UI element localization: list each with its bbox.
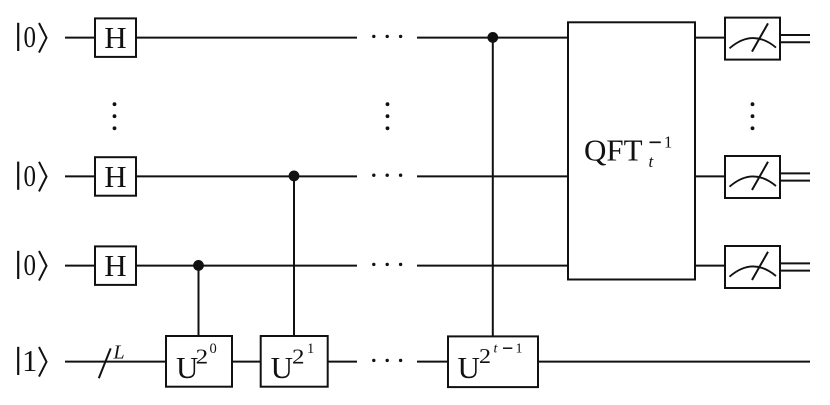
svg-text:U: U [271, 350, 293, 385]
control dot row3 [193, 260, 204, 271]
meter measurement row2 [725, 156, 780, 198]
svg-text:0: 0 [24, 248, 37, 282]
wire row4 left segment [65, 361, 166, 363]
svg-text:0: 0 [24, 20, 37, 54]
svg-text:H: H [104, 248, 126, 283]
wire row2 segment to QFT [417, 175, 568, 177]
wire row1 segment to QFT [417, 37, 568, 39]
cdots row4 [372, 359, 402, 362]
vdots left column [113, 102, 117, 130]
svg-text:H: H [104, 159, 126, 194]
classical double wire row1 [780, 35, 810, 42]
svg-text:0: 0 [210, 341, 217, 357]
svg-text:2: 2 [196, 345, 209, 369]
QFT inverse box U1 [568, 22, 695, 279]
control dot row2 [289, 171, 300, 182]
H gate row1 [95, 18, 136, 57]
svg-text:1: 1 [307, 341, 314, 357]
svg-text:2: 2 [479, 344, 491, 368]
wire row3 segment to QFT [417, 265, 568, 267]
cdots row2 [372, 174, 402, 177]
H gate row3 [95, 246, 136, 285]
ket |0> qubit 1 label [18, 23, 46, 53]
wire row4 between U gates [232, 361, 261, 363]
svg-text:H: H [104, 20, 126, 55]
bus slash L on row4 [99, 342, 125, 379]
H gate row2 [95, 157, 136, 196]
svg-text:1: 1 [22, 344, 37, 378]
U^2^1 gate [261, 336, 328, 387]
meter measurement row1 [725, 18, 780, 60]
cdots row1 [372, 35, 402, 38]
control vertical wire from row1 to U^2^t-1 [492, 38, 494, 336]
wire row1 QFT to meter [695, 37, 725, 39]
svg-text:U: U [458, 350, 480, 385]
U^2^t-1 gate [448, 336, 538, 387]
U^2^0 gate [166, 336, 232, 387]
svg-text:2: 2 [292, 345, 305, 369]
control dot row1 [487, 32, 498, 43]
ket |1> eigenstate register label [18, 347, 46, 377]
wire row2 QFT to meter [695, 175, 725, 177]
svg-text:QFT: QFT [584, 133, 643, 168]
svg-text:0: 0 [24, 159, 37, 193]
wire row3 left segment [65, 265, 96, 267]
control vertical wire from row2 to U^2^1 [293, 176, 295, 336]
wire row1 middle segment [136, 37, 357, 39]
wire row2 left segment [65, 175, 96, 177]
ket |0> qubit t label [18, 251, 46, 281]
svg-text:1: 1 [664, 133, 672, 152]
ket |0> qubit t-1 label [18, 162, 46, 192]
wire row3 QFT to meter [695, 265, 725, 267]
wire row4 before dots [328, 361, 357, 363]
svg-text:L: L [113, 342, 125, 364]
classical double wire row2 [780, 173, 810, 180]
vdots middle column [386, 102, 390, 130]
wire row1 left segment [65, 37, 96, 39]
cdots row3 [372, 263, 402, 266]
wire row4 right segment [538, 361, 810, 363]
wire row2 middle segment [136, 175, 357, 177]
wire row3 middle segment [136, 265, 357, 267]
vdots right column [751, 102, 755, 130]
meter measurement row3 [725, 246, 780, 288]
svg-text:1: 1 [516, 342, 523, 357]
wire row4 after dots [417, 361, 448, 363]
control vertical wire from row3 to U^2^0 [198, 266, 200, 336]
classical double wire row3 [780, 263, 810, 270]
